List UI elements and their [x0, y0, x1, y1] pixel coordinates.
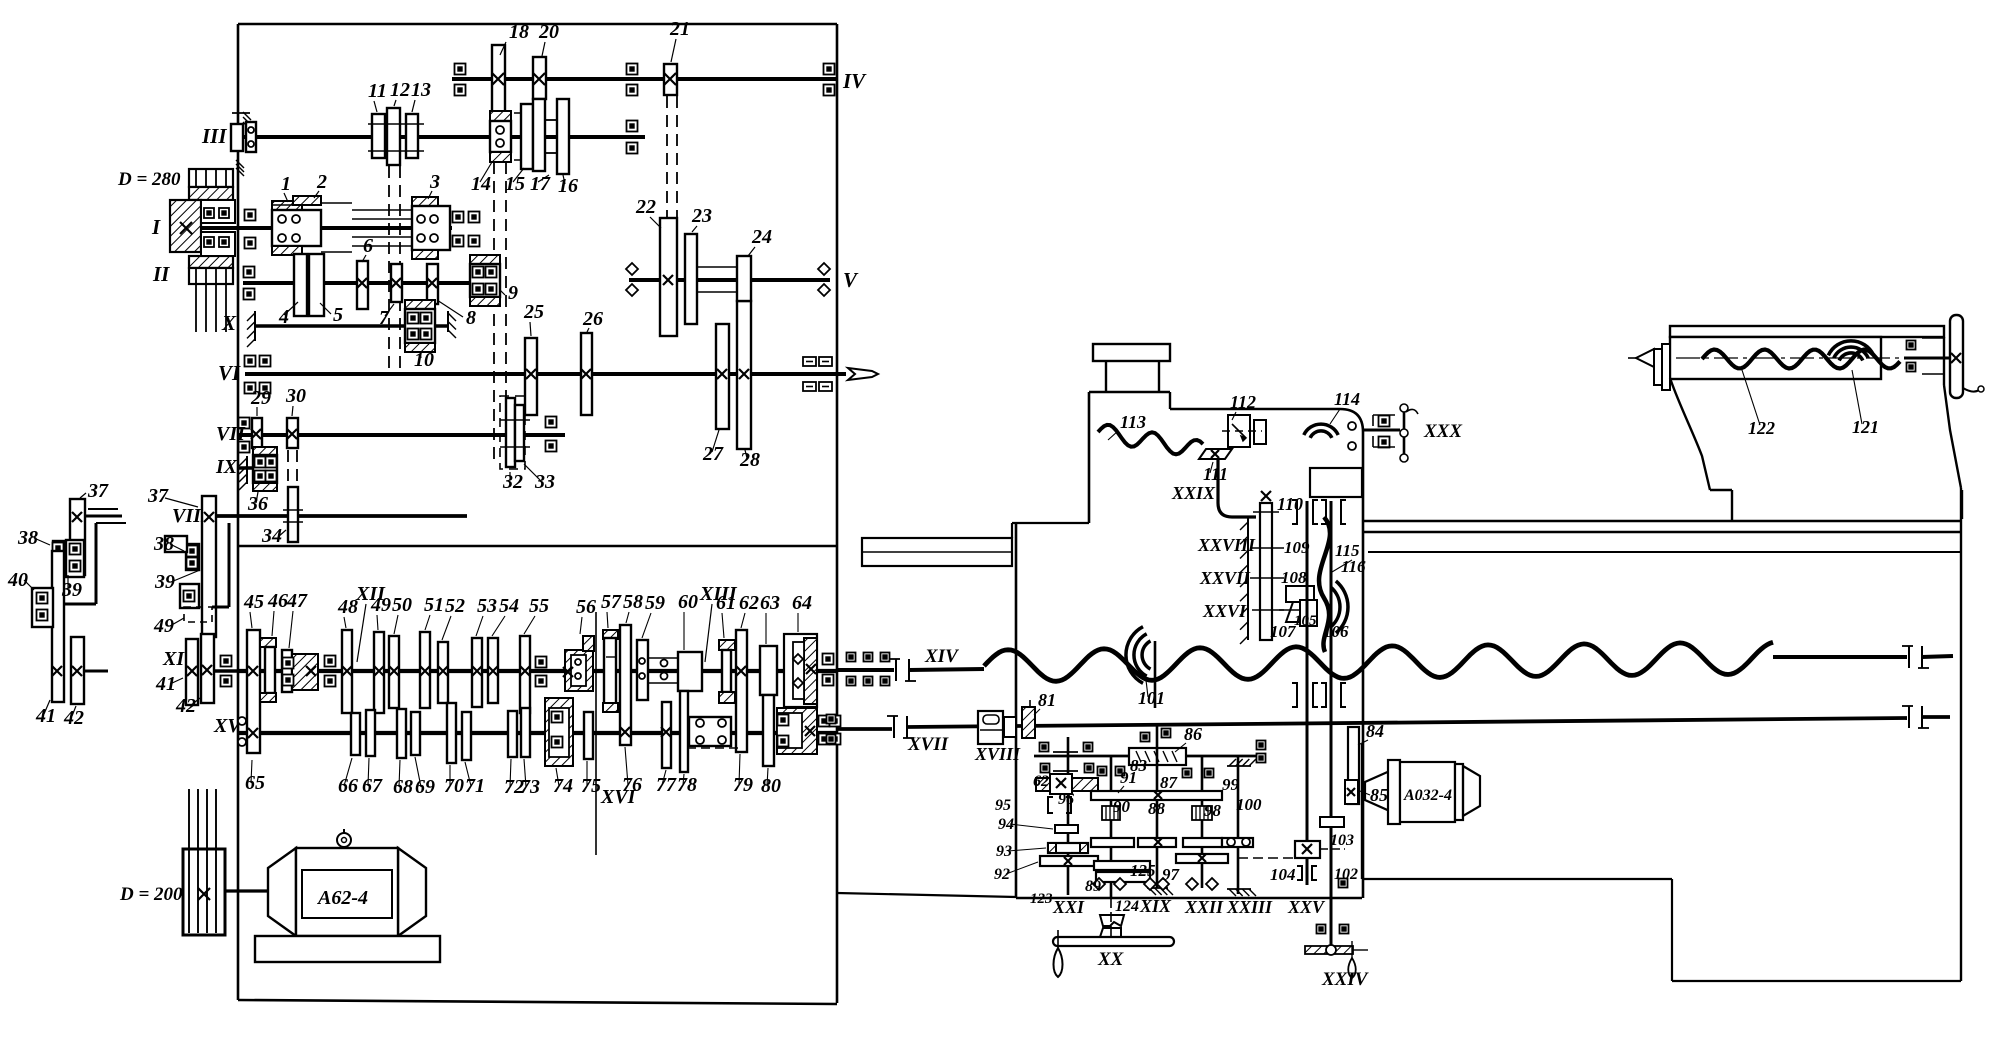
- svg-text:1: 1: [281, 173, 291, 195]
- svg-text:92: 92: [994, 866, 1010, 883]
- svg-text:61: 61: [716, 592, 736, 614]
- svg-text:125: 125: [1130, 861, 1156, 880]
- svg-text:30: 30: [285, 385, 306, 407]
- svg-text:18: 18: [509, 21, 529, 43]
- svg-text:XVII: XVII: [907, 734, 949, 755]
- svg-text:114: 114: [1334, 389, 1360, 409]
- svg-text:37: 37: [147, 485, 169, 507]
- svg-text:112: 112: [1230, 392, 1256, 412]
- svg-text:103: 103: [1330, 832, 1354, 849]
- svg-text:32: 32: [502, 471, 523, 493]
- svg-text:75: 75: [581, 775, 601, 797]
- svg-text:XXX: XXX: [1423, 421, 1463, 442]
- svg-text:79: 79: [733, 774, 753, 796]
- svg-text:39: 39: [61, 579, 82, 601]
- svg-text:21: 21: [669, 18, 690, 40]
- svg-text:77: 77: [656, 774, 677, 796]
- svg-text:110: 110: [1277, 494, 1303, 514]
- svg-text:100: 100: [1236, 795, 1262, 814]
- svg-text:IX: IX: [215, 456, 238, 478]
- svg-text:33: 33: [534, 471, 555, 493]
- svg-text:7: 7: [379, 307, 390, 329]
- svg-text:52: 52: [445, 595, 465, 617]
- svg-text:А62-4: А62-4: [316, 887, 368, 909]
- svg-text:XXIV: XXIV: [1321, 969, 1369, 990]
- svg-text:16: 16: [558, 175, 578, 197]
- svg-text:78: 78: [677, 774, 697, 796]
- svg-text:23: 23: [691, 205, 712, 227]
- svg-text:IV: IV: [842, 69, 867, 93]
- svg-text:74: 74: [553, 775, 573, 797]
- svg-text:124: 124: [1115, 898, 1139, 915]
- svg-text:69: 69: [415, 776, 435, 798]
- svg-text:67: 67: [362, 775, 383, 797]
- svg-text:III: III: [201, 124, 227, 148]
- svg-text:9: 9: [508, 282, 518, 304]
- svg-text:37: 37: [87, 480, 109, 502]
- svg-text:XXI: XXI: [1052, 897, 1085, 917]
- svg-text:24: 24: [751, 226, 772, 248]
- svg-text:80: 80: [761, 775, 781, 797]
- svg-text:63: 63: [760, 592, 780, 614]
- svg-text:15: 15: [505, 173, 525, 195]
- svg-text:6: 6: [363, 235, 373, 257]
- svg-text:XXVII: XXVII: [1199, 568, 1251, 588]
- svg-text:99: 99: [1222, 775, 1240, 794]
- svg-text:V: V: [843, 268, 859, 292]
- svg-text:76: 76: [622, 774, 642, 796]
- svg-text:8: 8: [466, 307, 476, 329]
- svg-text:XX: XX: [1097, 949, 1125, 970]
- svg-text:D = 200: D = 200: [119, 884, 183, 905]
- svg-text:13: 13: [411, 79, 431, 101]
- svg-text:14: 14: [471, 173, 491, 195]
- svg-text:X: X: [221, 311, 237, 335]
- svg-text:29: 29: [250, 387, 271, 409]
- svg-text:40: 40: [7, 569, 28, 591]
- svg-text:XIV: XIV: [924, 646, 959, 667]
- svg-text:90: 90: [1113, 797, 1131, 816]
- svg-text:XVIII: XVIII: [974, 744, 1021, 764]
- svg-text:97: 97: [1162, 865, 1181, 884]
- svg-text:54: 54: [499, 595, 519, 617]
- svg-text:55: 55: [529, 595, 549, 617]
- svg-text:121: 121: [1852, 417, 1879, 437]
- svg-text:95: 95: [995, 797, 1011, 814]
- svg-text:116: 116: [1341, 557, 1366, 576]
- svg-text:56: 56: [576, 596, 596, 618]
- svg-text:II: II: [152, 262, 170, 286]
- svg-text:XXIII: XXIII: [1226, 897, 1273, 917]
- svg-text:VII: VII: [216, 423, 246, 445]
- svg-text:84: 84: [1366, 721, 1384, 741]
- svg-text:XXVIII: XXVIII: [1197, 535, 1256, 555]
- svg-text:85: 85: [1370, 785, 1388, 805]
- svg-text:93: 93: [996, 843, 1012, 860]
- svg-text:96: 96: [1058, 791, 1074, 808]
- svg-text:11: 11: [368, 80, 387, 102]
- svg-text:25: 25: [523, 301, 544, 323]
- svg-text:XXV: XXV: [1287, 897, 1326, 917]
- svg-text:123: 123: [1030, 891, 1053, 907]
- svg-text:48: 48: [337, 596, 358, 618]
- svg-text:27: 27: [702, 443, 724, 465]
- svg-text:73: 73: [520, 776, 540, 798]
- svg-text:47: 47: [286, 590, 308, 612]
- svg-text:60: 60: [678, 591, 698, 613]
- svg-text:57: 57: [601, 591, 622, 613]
- svg-text:49: 49: [370, 594, 391, 616]
- svg-text:81: 81: [1038, 690, 1056, 710]
- svg-text:А032-4: А032-4: [1403, 787, 1452, 804]
- svg-text:XXVI: XXVI: [1202, 601, 1247, 621]
- svg-text:62: 62: [739, 592, 759, 614]
- svg-text:53: 53: [477, 595, 497, 617]
- svg-text:107: 107: [1270, 622, 1297, 641]
- svg-text:62: 62: [1033, 773, 1049, 790]
- svg-text:64: 64: [792, 592, 812, 614]
- svg-text:10: 10: [414, 349, 434, 371]
- svg-text:28: 28: [739, 449, 760, 471]
- svg-text:88: 88: [1148, 799, 1166, 818]
- svg-text:VI: VI: [218, 361, 241, 385]
- svg-text:71: 71: [465, 775, 485, 797]
- svg-text:45: 45: [243, 591, 264, 613]
- svg-text:XIX: XIX: [1139, 896, 1172, 916]
- svg-text:83: 83: [1130, 756, 1148, 775]
- svg-text:26: 26: [582, 308, 603, 330]
- svg-text:42: 42: [63, 707, 84, 729]
- svg-text:108: 108: [1281, 568, 1307, 587]
- svg-text:50: 50: [392, 594, 412, 616]
- svg-text:20: 20: [538, 21, 559, 43]
- svg-text:102: 102: [1334, 866, 1358, 883]
- svg-text:12: 12: [390, 79, 410, 101]
- svg-text:66: 66: [338, 775, 358, 797]
- svg-text:46: 46: [267, 590, 288, 612]
- svg-text:111: 111: [1203, 464, 1228, 484]
- svg-text:I: I: [151, 215, 161, 239]
- svg-text:59: 59: [645, 592, 665, 614]
- svg-text:70: 70: [444, 775, 464, 797]
- svg-text:XXIX: XXIX: [1171, 483, 1216, 503]
- svg-text:22: 22: [635, 196, 656, 218]
- svg-text:68: 68: [393, 776, 413, 798]
- svg-text:41: 41: [155, 673, 176, 695]
- svg-text:42: 42: [175, 695, 196, 717]
- svg-text:122: 122: [1748, 418, 1775, 438]
- svg-text:D = 280: D = 280: [117, 169, 181, 190]
- svg-text:3: 3: [429, 171, 440, 193]
- svg-text:4: 4: [278, 306, 289, 328]
- svg-text:86: 86: [1184, 724, 1202, 744]
- svg-text:51: 51: [424, 594, 444, 616]
- svg-text:XXII: XXII: [1184, 897, 1224, 917]
- svg-text:65: 65: [245, 772, 265, 794]
- svg-text:98: 98: [1204, 801, 1222, 820]
- svg-text:89: 89: [1085, 878, 1101, 895]
- svg-text:XI: XI: [162, 648, 185, 670]
- svg-text:87: 87: [1160, 773, 1179, 792]
- svg-text:41: 41: [35, 705, 56, 727]
- svg-text:101: 101: [1138, 688, 1165, 708]
- svg-text:113: 113: [1120, 412, 1146, 432]
- svg-text:2: 2: [316, 171, 327, 193]
- svg-text:58: 58: [623, 591, 643, 613]
- svg-text:5: 5: [333, 304, 343, 326]
- svg-text:104: 104: [1270, 865, 1296, 884]
